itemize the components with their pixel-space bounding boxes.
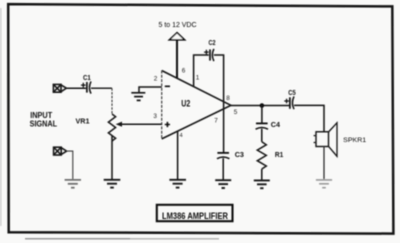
capacitor C1 <box>81 81 91 93</box>
svg-text:5 to 12 VDC: 5 to 12 VDC <box>159 20 197 29</box>
wire pin2 to ground <box>139 87 162 92</box>
svg-text:C5: C5 <box>288 88 295 97</box>
scan shadow bottom <box>25 238 130 240</box>
svg-text:4: 4 <box>180 133 183 139</box>
svg-text:SIGNAL: SIGNAL <box>30 120 58 129</box>
svg-text:VR1: VR1 <box>76 117 90 126</box>
svg-text:R1: R1 <box>275 150 283 159</box>
ground VR1 <box>104 180 121 188</box>
speaker SPKR1 <box>314 123 337 157</box>
wire VR1 to ground <box>111 136 113 180</box>
junction node <box>260 103 265 108</box>
svg-text:LM386 AMPLIFIER: LM386 AMPLIFIER <box>162 211 229 221</box>
capacitor C3 <box>217 153 229 159</box>
wire connector J2 to ground <box>67 151 73 179</box>
svg-text:SPKR1: SPKR1 <box>343 137 366 144</box>
resistor R1 <box>257 142 266 169</box>
capacitor C4 <box>256 123 268 129</box>
wire R1 to ground <box>261 169 263 180</box>
wire output pin5 <box>231 105 289 107</box>
ground C3 <box>215 180 231 188</box>
wire C2 to pin8 and down to C3 <box>214 55 224 152</box>
svg-text:7: 7 <box>214 118 218 125</box>
wire connector to C1 <box>66 87 86 89</box>
svg-text:U2: U2 <box>181 98 190 108</box>
minus sign pin2 <box>165 85 170 87</box>
power arrow <box>169 33 184 40</box>
capacitor C2 <box>204 49 214 61</box>
svg-text:3: 3 <box>153 113 157 120</box>
svg-text:C2: C2 <box>209 38 216 47</box>
wire pin1 to C2 <box>194 55 209 86</box>
op-amp left edge <box>161 71 163 139</box>
wire junction to C4 <box>261 106 263 124</box>
plus sign pin3 <box>165 122 170 127</box>
ground SPKR1 (gray) <box>316 180 332 188</box>
input shield connector J2 <box>54 147 67 155</box>
svg-text:C3: C3 <box>235 150 244 159</box>
capacitor C5 <box>284 96 294 109</box>
scan shadow left edge <box>0 8 2 226</box>
wire C1 to VR1 <box>91 87 112 89</box>
wire C5 to speaker <box>294 105 324 131</box>
wire C3 to ground <box>222 158 224 179</box>
svg-text:C1: C1 <box>83 73 91 82</box>
potentiometer VR1 <box>108 114 115 141</box>
wiper arrow VR1 <box>121 123 162 125</box>
title box <box>157 205 233 221</box>
wire speaker to ground <box>323 147 325 180</box>
svg-text:2: 2 <box>154 76 158 83</box>
wire C4 to R1 <box>261 129 263 142</box>
ground J2 (gray) <box>65 180 81 188</box>
svg-text:6: 6 <box>182 68 186 75</box>
ground pin4 <box>169 180 186 188</box>
wire pin4 to ground <box>177 131 179 179</box>
svg-text:1: 1 <box>196 74 200 81</box>
wire power to pin 6 <box>176 40 178 78</box>
op-amp U2 triangle <box>162 71 231 139</box>
input connector J1 <box>53 84 66 92</box>
svg-text:5: 5 <box>234 109 238 116</box>
ground R1 <box>254 180 270 188</box>
ground pin2 <box>131 93 145 101</box>
svg-text:C4: C4 <box>271 120 281 129</box>
wire down to VR1 <box>111 88 113 114</box>
svg-text:8: 8 <box>226 95 230 102</box>
